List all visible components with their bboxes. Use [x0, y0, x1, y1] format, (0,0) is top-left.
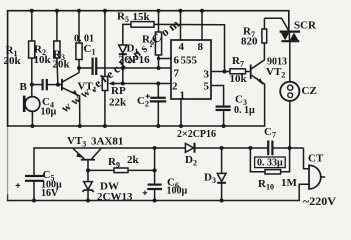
zener diode DW [83, 170, 94, 200]
diode D3 [217, 148, 226, 201]
wire regulated rail [34, 148, 304, 176]
wire left border [7, 11, 9, 126]
capacitor C3 [216, 107, 231, 126]
svg-text:555: 555 [181, 55, 198, 67]
svg-text:820: 820 [241, 36, 258, 48]
svg-text:2k: 2k [127, 154, 140, 166]
resistor R7 820 [262, 18, 267, 43]
svg-text:10µ: 10µ [41, 107, 57, 118]
plug CT [299, 148, 325, 201]
svg-text:2CW13: 2CW13 [97, 191, 133, 203]
diode D2 [185, 143, 194, 153]
svg-text:10k: 10k [230, 73, 248, 85]
svg-text:20k: 20k [4, 55, 22, 67]
svg-text:CT: CT [308, 153, 324, 165]
capacitor C5 [16, 176, 44, 201]
resistor R1 [29, 11, 35, 85]
wire pin1 [180, 99, 182, 126]
IC 555 U1 [171, 40, 211, 99]
svg-text:3AX81: 3AX81 [91, 136, 123, 148]
resistor R5 [123, 22, 225, 72]
capacitor C1 [93, 58, 171, 76]
svg-text:1: 1 [180, 90, 186, 102]
microphone B [23, 85, 40, 126]
resistor R10 with value box [250, 148, 289, 174]
svg-text:~220V: ~220V [303, 194, 336, 208]
svg-text:1M: 1M [281, 177, 298, 189]
wire mid rail [8, 125, 265, 127]
svg-text:10k: 10k [34, 54, 52, 66]
wire top rail [8, 11, 289, 31]
svg-text:20k: 20k [53, 59, 71, 71]
resistor R9 [88, 168, 155, 173]
svg-text:CZ: CZ [302, 85, 317, 97]
svg-text:RP: RP [111, 85, 126, 97]
svg-text:22k: 22k [109, 97, 127, 109]
svg-text:16V: 16V [41, 188, 59, 199]
svg-text:B: B [20, 81, 28, 93]
transistor VT2 [250, 43, 265, 126]
transistor VT3 [73, 149, 101, 171]
svg-text:4: 4 [179, 41, 185, 53]
wire pin8 [201, 11, 203, 40]
capacitor C6 [143, 148, 162, 201]
svg-text:2: 2 [172, 81, 178, 93]
svg-text:3: 3 [204, 69, 210, 81]
thyristor SCR triac [280, 32, 300, 42]
svg-text:2×2CP16: 2×2CP16 [177, 129, 216, 140]
svg-text:SCR: SCR [294, 20, 317, 32]
svg-text:5: 5 [204, 81, 210, 93]
wire pin2 row [123, 83, 171, 85]
resistor R3 [76, 11, 82, 68]
lamp socket CZ [280, 82, 299, 148]
resistor R2 [54, 11, 60, 85]
svg-text:0. 33µ: 0. 33µ [257, 158, 283, 169]
svg-text:6: 6 [174, 55, 180, 67]
svg-text:100µ: 100µ [167, 186, 188, 197]
wire triac gate [264, 18, 288, 31]
wire left border lower faint [7, 126, 9, 195]
resistor R6 [155, 11, 171, 68]
potentiometer RP [102, 11, 123, 126]
diode D1 [119, 27, 127, 84]
wire pin3 [211, 71, 230, 73]
wire node collector-C1 [79, 67, 92, 69]
capacitor C7 [268, 141, 272, 156]
wire bottom rail [8, 200, 300, 202]
wire pin4 [180, 11, 182, 40]
svg-text:8: 8 [198, 41, 204, 53]
svg-text:0. 1µ: 0. 1µ [234, 105, 255, 116]
resistor R7 10k [230, 69, 250, 74]
transistor VT1 [61, 68, 80, 126]
capacitor C4 [32, 79, 61, 90]
svg-text:7: 7 [174, 68, 180, 80]
svg-text:15k: 15k [133, 11, 151, 23]
capacitor C2 [146, 84, 167, 127]
wire pin5 [211, 86, 224, 107]
wire triac to lamp [289, 41, 291, 81]
